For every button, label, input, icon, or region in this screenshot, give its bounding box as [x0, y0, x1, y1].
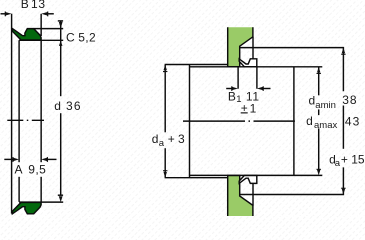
svg-text:d: d: [152, 132, 159, 146]
dimension da+3: vertical line upper: [164, 65, 166, 133]
dimension da+15: top extension + corner: [240, 48, 344, 92]
label da max 43: [306, 114, 360, 131]
svg-text:36: 36: [66, 99, 82, 113]
extension line / lip-tip silhouette (left): [11, 14, 13, 214]
step / sleeve end face: [189, 65, 191, 178]
dimension B: label: [21, 0, 46, 11]
svg-text:a: a: [159, 138, 165, 149]
counterface collar top (light green): [228, 27, 253, 66]
counterface collar bottom (light green): [228, 176, 253, 217]
svg-text:amax: amax: [314, 120, 337, 131]
V-ring body right edge: [40, 40, 42, 202]
dimension B1: left extension line: [237, 67, 239, 88]
arrow down to C top ext: [59, 22, 63, 29]
dimension da min/max: vertical line: [318, 67, 320, 96]
dimension A: left arrow: [12, 157, 19, 162]
dimension A: right arrow: [41, 157, 48, 162]
da+15 line lower + bottom corner/extension: [240, 167, 344, 194]
label da min 38: [309, 93, 358, 111]
dimension A: right tail: [46, 158, 56, 160]
svg-text:a: a: [335, 158, 341, 169]
dimension B: right arrow: [41, 12, 48, 17]
dimension C / d vertical line: top T-bar: [58, 20, 63, 22]
svg-text:9,5: 9,5: [28, 162, 46, 176]
svg-text:d: d: [54, 99, 61, 113]
label da + 15: [329, 152, 365, 169]
dimension B: line left segment: [1, 13, 7, 15]
collar rim silhouette stub top: [252, 37, 254, 59]
dimension B1: left tail + arrow: [226, 88, 233, 90]
svg-text:A: A: [15, 162, 23, 176]
svg-text:43: 43: [345, 114, 360, 128]
bottom profile of V-ring (section, green, mirrored): [12, 202, 41, 213]
mounted V-ring top (white): [239, 59, 257, 67]
svg-text:13: 13: [31, 0, 46, 11]
label C 5,2: [66, 30, 96, 44]
dimension line lower segment: [60, 113, 62, 195]
seat surface top (extends as extension line for da min/max): [190, 66, 323, 68]
da+3 top arrow: [163, 65, 167, 73]
mounted V-ring bottom (white, mirrored): [239, 176, 257, 184]
extension line right of B down to body: [40, 14, 42, 36]
svg-text:38: 38: [342, 93, 357, 107]
svg-text:d: d: [306, 114, 313, 128]
centerline (dash-dot) of ring section: [7, 119, 44, 121]
svg-text:amin: amin: [315, 100, 336, 111]
shaft surface upper-left: [165, 64, 228, 66]
C upper extension line: [34, 28, 64, 30]
da+3 bottom arrow: [163, 170, 167, 178]
dimension B: left arrow: [5, 12, 12, 17]
shaft end edge: [293, 67, 295, 176]
da+15 line middle: [342, 106, 344, 149]
svg-text:+ 3: + 3: [168, 132, 185, 146]
top profile of V-ring (section, green): [12, 29, 41, 40]
svg-text:5,2: 5,2: [78, 30, 96, 44]
label A 9,5 with mask: [13, 162, 48, 177]
dimension B1: right extension line: [256, 67, 258, 89]
dimension A: left tail: [4, 158, 14, 160]
svg-text:d: d: [309, 94, 316, 108]
label B1 11: [228, 89, 260, 105]
label +/- 1: [241, 101, 257, 116]
svg-text:+ 15: + 15: [341, 152, 365, 166]
dimension line segment: [60, 21, 62, 96]
label d 36: [54, 99, 81, 113]
seat surface bottom + extension: [190, 174, 323, 176]
svg-text:C: C: [66, 30, 75, 44]
svg-text:B: B: [228, 89, 236, 103]
dimension B: line right segment: [46, 13, 53, 15]
V-ring body left edge: [18, 40, 20, 202]
bore line bottom + d extension: [19, 201, 63, 203]
dimension B1: right arrow + tail: [257, 86, 264, 91]
bore line top + C lower extension: [19, 39, 63, 41]
shaft surface lower-left: [165, 177, 228, 179]
da+3 vertical line lower: [164, 148, 166, 177]
collar rim silhouette stub bottom: [252, 184, 254, 206]
shaft axis centerline: [183, 120, 295, 122]
bottom T-bar: [58, 194, 63, 196]
label da + 3: [152, 132, 185, 149]
svg-text:1: 1: [250, 102, 257, 116]
arrow down to bottom bore: [59, 196, 63, 202]
svg-text:B: B: [21, 0, 29, 11]
arrow up to C bottom ext (d top arrow): [59, 41, 63, 46]
